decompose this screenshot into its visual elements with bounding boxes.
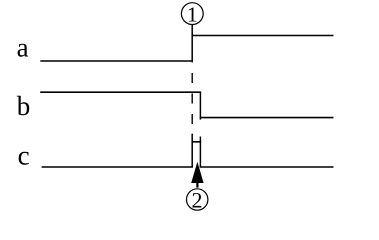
svg-text:1: 1 xyxy=(187,3,198,27)
node ① marker circle (timing point 1) xyxy=(181,3,203,27)
svg-text:a: a xyxy=(17,33,29,63)
svg-text:b: b xyxy=(17,91,31,121)
wire: signal a rising edge at t1 (solid vertical from circle 1) xyxy=(191,25,193,62)
pulse on c: top segment xyxy=(192,141,202,143)
pulse on c: left (rising) edge with dash tail above xyxy=(191,134,193,168)
wire: signal c low segment right of pulse xyxy=(200,166,334,168)
wire: signal a low segment xyxy=(40,60,193,62)
node ② marker circle (timing point 2) xyxy=(187,188,208,213)
wire: signal b falling edge at t2 xyxy=(199,92,201,120)
arrow marker pointing up at pulse on c xyxy=(191,162,203,188)
dashed guide line below a edge at x=192 xyxy=(191,62,193,134)
wire: signal a high segment xyxy=(192,35,334,37)
pulse on c: right (falling) edge with dash tail above xyxy=(199,137,201,168)
wire: signal b low segment xyxy=(200,117,334,119)
wire: signal c low segment left of pulse xyxy=(42,166,193,168)
wire: signal b high segment xyxy=(40,91,201,93)
svg-text:2: 2 xyxy=(192,188,203,213)
svg-text:c: c xyxy=(18,140,30,170)
